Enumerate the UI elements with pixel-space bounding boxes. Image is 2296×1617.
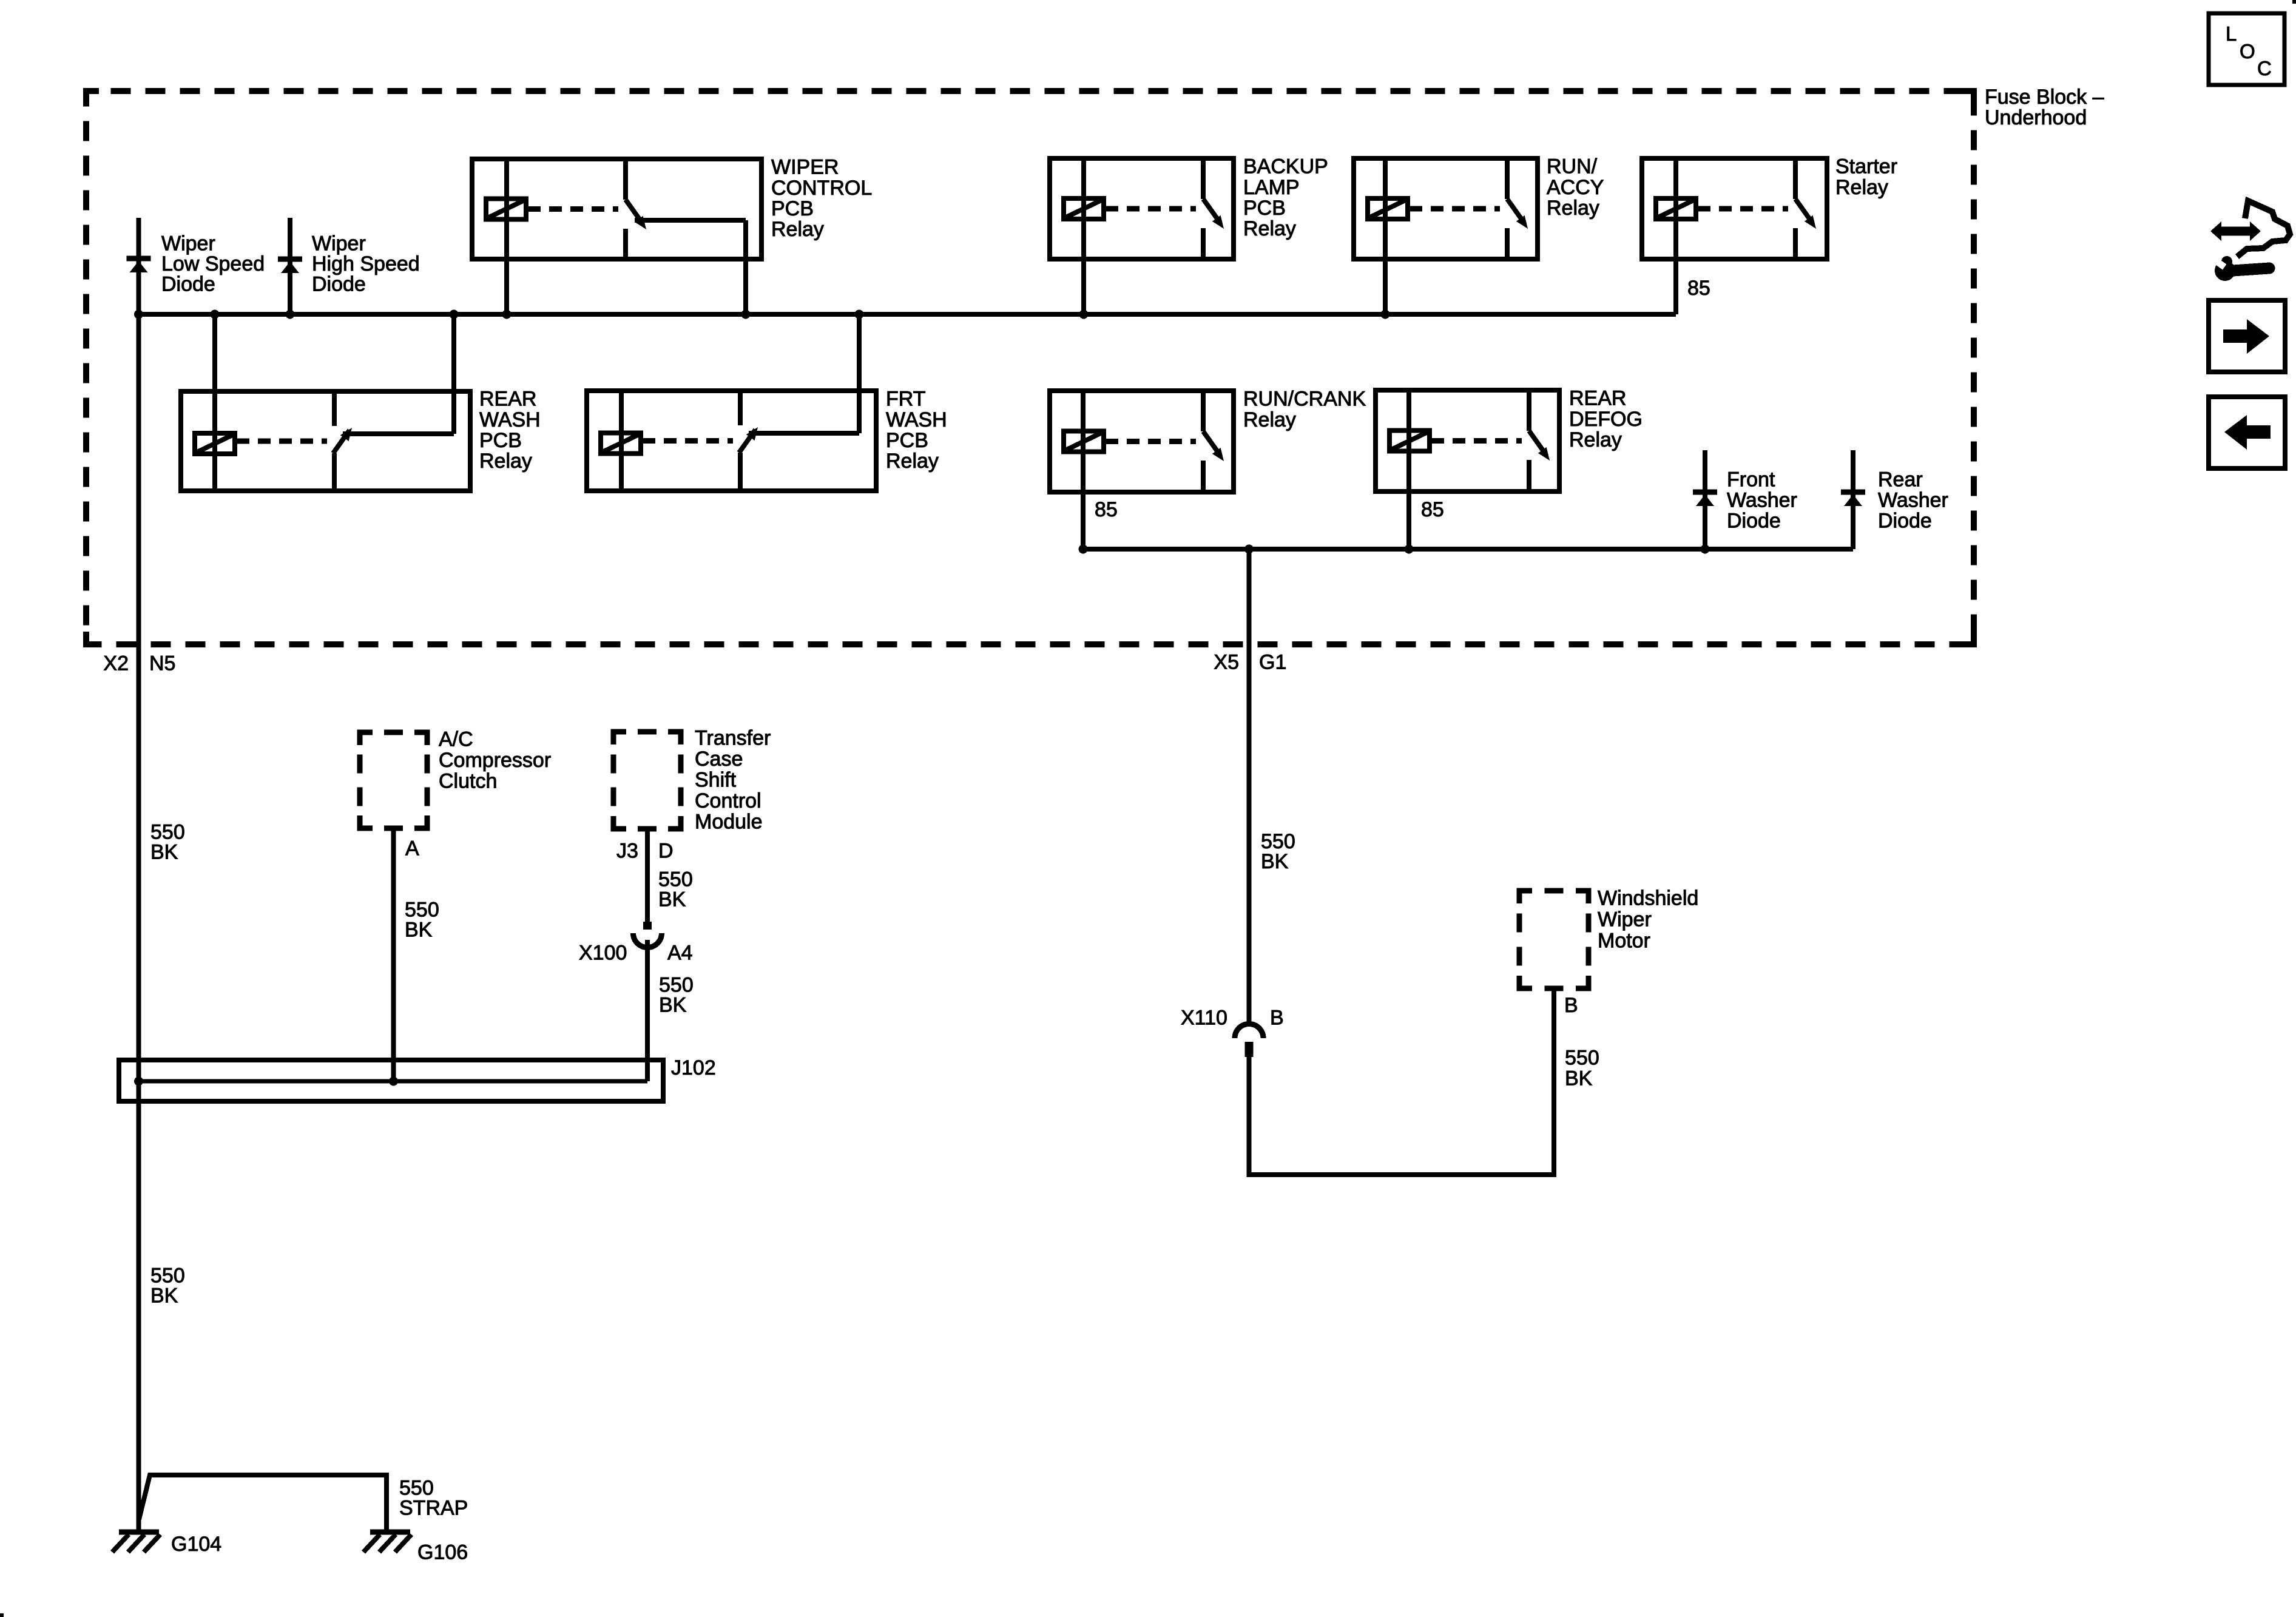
wire rear washer diode branch xyxy=(1851,450,1855,549)
svg-text:Transfer: Transfer xyxy=(695,727,771,750)
svg-text:REAR: REAR xyxy=(1569,387,1626,410)
Transfer Case Shift Control Module (dashed box) xyxy=(613,732,626,744)
relay RUN/ACCY box xyxy=(1354,158,1538,259)
svg-text:REAR: REAR xyxy=(479,388,536,411)
svg-text:PCB: PCB xyxy=(886,429,928,452)
connector X110 xyxy=(1235,1024,1263,1039)
svg-text:Relay: Relay xyxy=(1243,408,1296,431)
wire X100 to J102 (550 BK) xyxy=(645,940,650,1081)
relay FRT WASH PCB box xyxy=(587,391,876,491)
svg-text:Wiper: Wiper xyxy=(161,232,215,255)
svg-text:BK: BK xyxy=(150,1284,178,1308)
wire main feed bus xyxy=(139,312,1676,317)
wire wiper control switch output to bus xyxy=(743,220,748,314)
svg-text:G1: G1 xyxy=(1259,651,1286,674)
svg-text:X2: X2 xyxy=(103,652,129,675)
diode Rear Washer Diode xyxy=(1851,450,1855,549)
svg-text:85: 85 xyxy=(1095,498,1118,521)
svg-text:Shift: Shift xyxy=(695,769,737,792)
svg-text:Motor: Motor xyxy=(1598,930,1650,953)
svg-text:X110: X110 xyxy=(1181,1007,1227,1030)
svg-text:Front: Front xyxy=(1727,468,1775,491)
svg-text:Diode: Diode xyxy=(1727,510,1781,533)
svg-text:Module: Module xyxy=(695,811,763,834)
relay FRT WASH PCB coil xyxy=(601,433,641,454)
svg-text:Diode: Diode xyxy=(161,273,215,296)
svg-text:A4: A4 xyxy=(667,942,693,965)
svg-text:Rear: Rear xyxy=(1878,468,1923,491)
relay Starter box xyxy=(1642,158,1827,259)
svg-text:Case: Case xyxy=(695,748,743,771)
relay REAR DEFOG switch xyxy=(1527,390,1531,431)
relay REAR WASH PCB coil xyxy=(195,433,235,454)
wire wiper low speed diode branch xyxy=(137,218,141,314)
junction dots on lower bus xyxy=(1079,545,1088,554)
relay REAR WASH PCB coil dashed link xyxy=(237,439,327,444)
A/C Compressor Clutch (dashed box) xyxy=(360,732,373,745)
relay BACKUP LAMP PCB coil dashed link xyxy=(1106,206,1196,212)
icon LOC box xyxy=(2209,13,2284,85)
wire rear defog coil to lower bus xyxy=(1406,390,1411,549)
page corner mark top right xyxy=(2292,0,2296,4)
svg-text:Relay: Relay xyxy=(479,450,532,473)
svg-text:PCB: PCB xyxy=(479,429,522,452)
svg-text:BK: BK xyxy=(659,994,687,1017)
splice pack J102 bus xyxy=(139,1079,647,1084)
svg-text:Starter: Starter xyxy=(1835,155,1897,178)
junction dots at J102 xyxy=(134,1077,143,1086)
svg-text:Diode: Diode xyxy=(1878,510,1932,533)
diode Front Washer Diode xyxy=(1703,450,1707,549)
wire transfer case pin D to X100 xyxy=(645,829,650,927)
svg-text:LAMP: LAMP xyxy=(1243,176,1300,199)
relay RUN/CRANK switch xyxy=(1201,391,1206,431)
svg-text:N5: N5 xyxy=(149,652,175,675)
svg-text:C: C xyxy=(2257,57,2272,79)
svg-text:550: 550 xyxy=(1565,1047,1599,1070)
wire wiper high speed diode branch xyxy=(288,218,292,314)
junction dots on main bus xyxy=(134,310,143,319)
wire run/accy coil to bus xyxy=(1383,158,1388,314)
diode Wiper High Speed Diode xyxy=(288,218,292,314)
relay RUN/CRANK coil dashed link xyxy=(1106,439,1196,444)
relay REAR WASH PCB switch xyxy=(332,391,337,426)
svg-text:High Speed: High Speed xyxy=(312,252,420,275)
relay FRT WASH PCB switch output wire xyxy=(749,431,859,436)
svg-text:Washer: Washer xyxy=(1878,489,1948,512)
svg-text:G106: G106 xyxy=(417,1541,468,1564)
diode Wiper Low Speed Diode xyxy=(137,218,141,314)
wire lower bus xyxy=(1083,547,1853,552)
relay RUN/ACCY switch xyxy=(1505,158,1510,199)
connector X100 xyxy=(643,922,652,930)
relay REAR WASH PCB box xyxy=(181,391,470,491)
svg-text:Clutch: Clutch xyxy=(439,769,497,792)
svg-text:O: O xyxy=(2240,40,2255,62)
svg-text:Low Speed: Low Speed xyxy=(161,252,265,275)
svg-text:B: B xyxy=(1270,1007,1284,1030)
svg-text:Control: Control xyxy=(695,789,761,812)
splice pack J102 housing xyxy=(119,1060,663,1101)
relay Starter coil dashed link xyxy=(1698,206,1788,212)
relay RUN/ACCY coil dashed link xyxy=(1410,206,1500,212)
icon vehicle data link (car with wrench and arrows) xyxy=(2210,201,2290,281)
svg-text:BACKUP: BACKUP xyxy=(1243,155,1328,178)
icon forward arrow box xyxy=(2209,300,2285,372)
relay REAR WASH PCB switch output wire xyxy=(343,431,454,436)
wire front washer diode branch xyxy=(1703,450,1707,549)
relay REAR DEFOG coil dashed link xyxy=(1431,438,1522,444)
relay BACKUP LAMP PCB switch xyxy=(1201,158,1206,199)
svg-text:85: 85 xyxy=(1421,498,1444,521)
wire rear wash coil feed xyxy=(212,314,217,491)
svg-text:Relay: Relay xyxy=(771,218,824,241)
relay WIPER CONTROL PCB coil dashed link xyxy=(528,206,618,212)
ground symbol G106 xyxy=(370,1530,410,1535)
relay BACKUP LAMP PCB coil xyxy=(1064,198,1104,219)
svg-text:CONTROL: CONTROL xyxy=(771,177,872,200)
svg-text:STRAP: STRAP xyxy=(399,1497,468,1520)
svg-text:85: 85 xyxy=(1687,277,1710,300)
page corner mark bottom left xyxy=(0,1613,4,1617)
relay WIPER CONTROL PCB switch xyxy=(623,159,628,200)
svg-text:Wiper: Wiper xyxy=(1598,908,1652,931)
relay REAR DEFOG coil xyxy=(1389,431,1430,451)
svg-text:B: B xyxy=(1564,994,1578,1017)
svg-text:Underhood: Underhood xyxy=(1985,106,2087,129)
svg-text:WASH: WASH xyxy=(886,408,947,431)
svg-text:X100: X100 xyxy=(579,942,627,965)
svg-text:Windshield: Windshield xyxy=(1598,887,1698,910)
svg-text:J3: J3 xyxy=(616,840,638,863)
wire 550 STRAP to G106 xyxy=(139,1475,387,1532)
Windshield Wiper Motor (dashed box) xyxy=(1519,891,1532,903)
relay FRT WASH PCB coil dashed link xyxy=(643,438,733,444)
svg-text:L: L xyxy=(2226,22,2237,45)
wire frt wash switch to bus xyxy=(857,314,862,433)
wire starter coil to bus xyxy=(1673,158,1678,314)
svg-text:BK: BK xyxy=(1565,1067,1593,1090)
wire X5 wiper motor feed (550 BK) xyxy=(1247,549,1252,1025)
svg-text:J102: J102 xyxy=(671,1056,716,1079)
icon back arrow box xyxy=(2209,397,2285,468)
wire A/C clutch pin A to J102 xyxy=(391,828,396,1081)
relay Starter switch xyxy=(1793,158,1798,199)
svg-text:PCB: PCB xyxy=(1243,197,1286,220)
svg-text:FRT: FRT xyxy=(886,388,925,411)
svg-text:RUN/: RUN/ xyxy=(1547,155,1598,178)
svg-text:Compressor: Compressor xyxy=(439,749,551,772)
svg-text:BK: BK xyxy=(658,888,686,911)
svg-text:X5: X5 xyxy=(1214,651,1239,674)
svg-text:Wiper: Wiper xyxy=(312,232,366,255)
relay Starter coil xyxy=(1656,198,1696,219)
wire backup lamp coil to bus xyxy=(1081,158,1086,314)
svg-text:G104: G104 xyxy=(171,1533,221,1556)
relay RUN/ACCY coil xyxy=(1368,198,1408,219)
svg-text:BK: BK xyxy=(405,919,433,942)
svg-text:Relay: Relay xyxy=(886,450,939,473)
relay WIPER CONTROL PCB coil xyxy=(486,199,526,220)
wire X2 ground feed (550 BK) xyxy=(137,314,141,1532)
svg-text:A: A xyxy=(405,837,419,860)
svg-text:BK: BK xyxy=(1261,850,1289,873)
relay WIPER CONTROL PCB switch output wire xyxy=(635,218,746,223)
svg-text:DEFOG: DEFOG xyxy=(1569,408,1643,431)
svg-text:RUN/CRANK: RUN/CRANK xyxy=(1243,388,1366,411)
fuse block - underhood outline (dashed) xyxy=(86,91,1974,644)
svg-text:PCB: PCB xyxy=(771,197,814,220)
relay REAR DEFOG box xyxy=(1376,390,1559,491)
relay BACKUP LAMP PCB box xyxy=(1050,158,1234,259)
relay RUN/CRANK coil xyxy=(1064,431,1104,452)
ground symbol G104 xyxy=(119,1530,159,1535)
svg-text:Relay: Relay xyxy=(1243,217,1296,240)
wire run/crank coil to lower bus xyxy=(1081,391,1086,549)
relay RUN/CRANK box xyxy=(1050,391,1234,492)
svg-text:Relay: Relay xyxy=(1547,197,1599,220)
wire X110 to motor (bottom U) xyxy=(1249,988,1555,1175)
svg-text:Washer: Washer xyxy=(1727,489,1797,512)
svg-text:WIPER: WIPER xyxy=(771,156,839,179)
wire wiper control coil to bus xyxy=(504,159,509,314)
svg-text:WASH: WASH xyxy=(479,408,541,431)
svg-text:Fuse Block –: Fuse Block – xyxy=(1985,86,2104,109)
svg-text:Relay: Relay xyxy=(1835,176,1888,199)
relay FRT WASH PCB switch xyxy=(738,391,743,425)
svg-text:D: D xyxy=(658,840,674,863)
relay WIPER CONTROL PCB box xyxy=(472,159,761,259)
wire frt wash coil pin xyxy=(619,391,624,491)
wire rear wash switch to bus xyxy=(451,314,456,434)
svg-text:BK: BK xyxy=(150,841,178,864)
svg-text:Diode: Diode xyxy=(312,273,366,296)
svg-text:Relay: Relay xyxy=(1569,428,1622,451)
svg-text:ACCY: ACCY xyxy=(1547,176,1604,199)
svg-text:A/C: A/C xyxy=(439,728,473,751)
